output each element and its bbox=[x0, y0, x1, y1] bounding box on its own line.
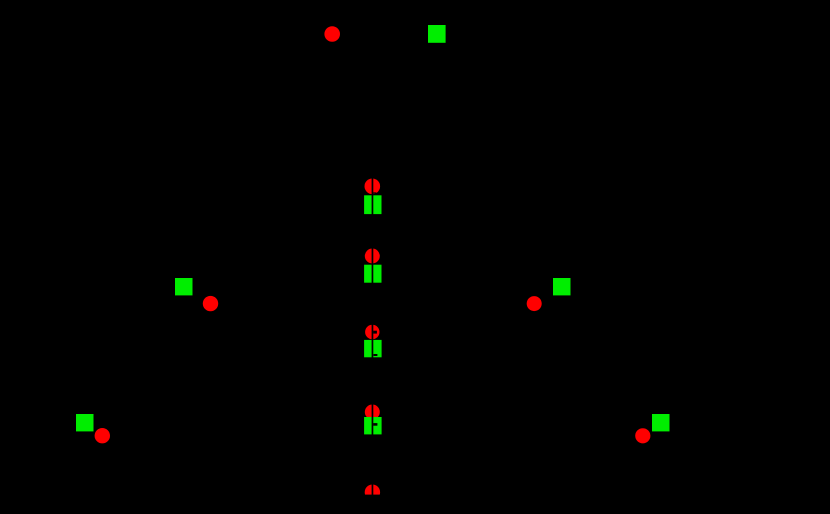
node L2 square (center column) bbox=[364, 265, 381, 283]
node L4 circle (center column, bottom half hidden behind square) bbox=[365, 405, 380, 420]
lower-left branch square bbox=[76, 414, 94, 431]
legend marker: red circle bbox=[324, 26, 340, 42]
lower-right branch circle bbox=[635, 428, 650, 443]
node L2 circle (center column) bbox=[365, 249, 380, 264]
right branch square bbox=[553, 278, 571, 295]
node L4 square (center column) bbox=[364, 417, 382, 434]
label fragment over L4 square bbox=[373, 423, 377, 426]
lower-right branch square bbox=[652, 414, 670, 431]
label fragment over L1 (dash below circle) bbox=[373, 192, 376, 193]
right branch circle bbox=[527, 296, 542, 311]
left branch circle bbox=[203, 296, 218, 311]
center vertical edge drawn over the markers bbox=[372, 172, 374, 496]
node L1 square (center column) bbox=[364, 195, 381, 214]
node L3 square (center column) bbox=[364, 340, 382, 357]
lower-left branch circle bbox=[95, 428, 110, 443]
node L3 circle (center column) bbox=[365, 325, 379, 339]
label fragment over L3 square bbox=[374, 354, 378, 356]
node L5 half circle (clipped at axes bottom y=494.7) bbox=[365, 485, 380, 500]
legend marker: green square bbox=[428, 25, 446, 43]
label fragment over L3 circle bbox=[373, 331, 377, 334]
node L1 circle (center column) bbox=[365, 179, 381, 195]
left branch square bbox=[175, 278, 193, 295]
